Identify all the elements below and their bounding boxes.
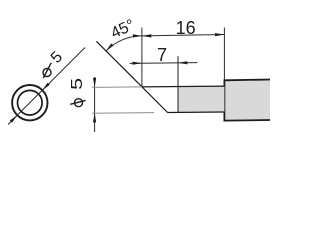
plated section rectangle (small grey) bbox=[178, 86, 224, 112]
circle arrow upper-right (pointing in, down-left) bbox=[42, 83, 50, 91]
extension grey bottom bbox=[92, 112, 154, 115]
extension line left (tip start) bbox=[141, 28, 143, 87]
arc arrow left (tangent, down-left) bbox=[106, 43, 114, 51]
end view outer circle bbox=[12, 85, 47, 120]
extension grey top bbox=[92, 86, 142, 89]
circle diagonal dimension line bbox=[8, 48, 85, 125]
extension line right (sleeve start) bbox=[223, 28, 225, 81]
svg-text:7: 7 bbox=[157, 45, 167, 65]
sleeve rectangle (large grey) bbox=[224, 80, 272, 121]
end view inner circle bbox=[18, 90, 43, 115]
label dia5 vertical: diameter symbol bbox=[75, 99, 83, 107]
label dia5 diagonal: diameter symbol bbox=[43, 69, 51, 77]
arrow 7 left (outside, pointing right) bbox=[133, 62, 142, 65]
arrow 16 left bbox=[142, 34, 151, 37]
arrow dia5 top (pointing down) bbox=[93, 78, 96, 87]
arrow 16 right bbox=[215, 33, 224, 36]
seam between tip and plating bbox=[177, 56, 179, 112]
svg-text:16: 16 bbox=[176, 18, 196, 38]
arrow dia5 bottom (pointing up) bbox=[93, 113, 96, 122]
svg-text:5: 5 bbox=[68, 78, 85, 90]
dimension line 7 bbox=[130, 62, 198, 65]
bevel face line (45 deg) bbox=[96, 41, 167, 112]
circle arrow lower-left (pointing in, up-right) bbox=[10, 115, 17, 123]
dimension line 16 bbox=[142, 35, 225, 36]
arc arrow right (pointing right) bbox=[133, 34, 142, 37]
rod top edge bbox=[142, 85, 225, 88]
svg-text:45°: 45° bbox=[108, 17, 137, 43]
dia5 vertical dimension line bbox=[94, 77, 96, 132]
rod bottom edge bbox=[168, 111, 225, 114]
45 deg arc bbox=[106, 36, 142, 51]
arrow 7 right (outside, pointing left) bbox=[178, 61, 187, 64]
